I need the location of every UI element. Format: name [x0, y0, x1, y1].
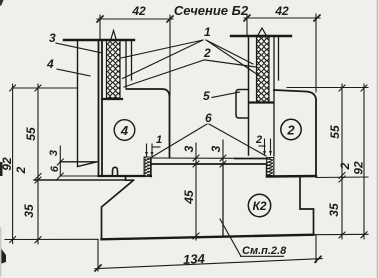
- center dimension 3 (left) + 45: [193, 143, 199, 240]
- K2 left stepped profile: [102, 176, 134, 239]
- part 5 cover strip (rounded bar): [236, 90, 249, 119]
- board part 4 (vertical stud): [60, 40, 97, 167]
- circle mark 2: [281, 119, 301, 139]
- svg-text:См.п.2.8: См.п.2.8: [242, 245, 287, 257]
- block 2 bottom-left face: [235, 158, 267, 160]
- right extension lines: [287, 88, 368, 235]
- svg-text:55: 55: [328, 125, 342, 139]
- right insulation crosshatch column: [257, 36, 270, 102]
- svg-text:42: 42: [274, 4, 289, 18]
- scan artifact: left edge smear: [0, 228, 2, 276]
- block 4 bottom edge: [99, 175, 152, 177]
- left insulation bottom cap: [102, 98, 122, 100]
- K2 joint line: [222, 164, 224, 235]
- right chain dimension 55 / 2 / 35: [339, 84, 345, 239]
- left cavity wall lines: [126, 40, 132, 89]
- svg-text:134: 134: [183, 251, 206, 267]
- K2 bottom edge: [102, 235, 314, 240]
- K2 raised tongue left face: [150, 158, 152, 177]
- svg-text:1: 1: [204, 25, 211, 39]
- svg-text:4: 4: [120, 123, 129, 138]
- seal gasket right (hatched): [267, 158, 275, 177]
- svg-text:6: 6: [205, 111, 212, 125]
- left outer dimension 92: [10, 84, 16, 244]
- svg-text:35: 35: [327, 203, 341, 217]
- dimension 42 top-right: [244, 14, 320, 92]
- dimension 42 top-left: [97, 15, 173, 95]
- mini dimension 1 (left seal): [145, 144, 160, 156]
- block 4 notch (semicircular groove): [113, 167, 118, 175]
- K2 right stepped profile: [300, 176, 314, 235]
- svg-text:К2: К2: [252, 199, 266, 213]
- svg-text:5: 5: [203, 89, 210, 103]
- left chain dimension 55 / 2 / 35: [35, 84, 41, 244]
- right cavity left wall: [248, 36, 250, 155]
- svg-text:3: 3: [48, 150, 60, 156]
- scan artifact: right edge line: [377, 0, 379, 278]
- svg-text:4: 4: [46, 57, 54, 71]
- svg-text:2: 2: [14, 166, 28, 174]
- left extension lines: [5, 88, 126, 240]
- svg-text:2: 2: [338, 162, 352, 170]
- svg-text:Сечение Б2: Сечение Б2: [174, 3, 249, 18]
- strip part 3 (double vertical lines): [99, 40, 103, 176]
- svg-text:3: 3: [182, 145, 196, 152]
- right outer dimension 92: [361, 84, 367, 239]
- right cavity right wall lines: [274, 36, 279, 156]
- mini dimension 3/6 left side: [57, 146, 98, 179]
- svg-text:55: 55: [24, 127, 38, 141]
- left insulation peak mark: [111, 31, 116, 40]
- svg-text:2: 2: [255, 134, 262, 146]
- block 2 outline: [274, 90, 316, 175]
- svg-text:3: 3: [49, 31, 56, 45]
- right insulation bottom cap: [250, 101, 273, 103]
- block 4 bottom-right face + extension to 3-dims: [151, 157, 235, 159]
- K2 raised center top face: [151, 163, 267, 165]
- block 2 / K2 ledge bottom edge right: [267, 175, 316, 178]
- circle mark 4: [114, 120, 135, 141]
- svg-text:3: 3: [209, 145, 223, 152]
- block 4 outline: [127, 89, 170, 158]
- svg-text:2: 2: [203, 46, 211, 60]
- left insulation crosshatch column: [107, 40, 121, 98]
- bottom dimension 134: [95, 235, 322, 271]
- mini dimension 2 (right seal): [259, 139, 272, 155]
- svg-text:6: 6: [49, 165, 61, 172]
- svg-text:45: 45: [182, 190, 196, 205]
- scan artifact: left edge marks: [0, 0, 4, 6]
- svg-text:35: 35: [22, 204, 36, 218]
- circle mark K2: [248, 194, 270, 216]
- svg-text:42: 42: [131, 4, 146, 18]
- svg-text:2: 2: [286, 123, 295, 138]
- left cap board (top horizontal): [64, 39, 134, 41]
- svg-text:1: 1: [156, 134, 162, 146]
- seal gasket left (hatched): [144, 157, 151, 177]
- right insulation peak mark: [258, 28, 266, 35]
- svg-text:92: 92: [352, 161, 366, 175]
- K2 raised right face: [266, 164, 268, 177]
- right cap board (top horizontal): [231, 35, 291, 37]
- center dimension 3 (right) / K2 joint line: [220, 140, 226, 236]
